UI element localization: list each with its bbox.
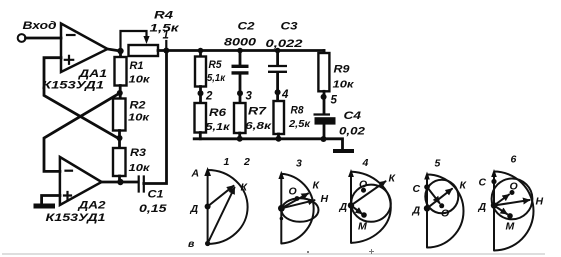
- svg-text:5,1к: 5,1к: [206, 121, 231, 133]
- svg-text:R2: R2: [130, 100, 146, 112]
- svg-text:Д: Д: [478, 201, 487, 213]
- svg-text:1: 1: [224, 156, 230, 168]
- svg-text:М: М: [358, 221, 367, 233]
- junction dot R8 bottom: [276, 136, 282, 142]
- svg-text:К153УД1: К153УД1: [46, 212, 106, 224]
- wire R8 to bottom rail: [277, 134, 280, 139]
- svg-text:R4: R4: [154, 10, 173, 22]
- svg-text:Н: Н: [321, 193, 329, 205]
- bottom rail wire: [194, 139, 342, 149]
- svg-text:С: С: [413, 183, 421, 195]
- vector diagram 4: [339, 157, 397, 243]
- svg-text:0,15: 0,15: [139, 203, 168, 215]
- op-amp DA2 К153УД1: [46, 157, 106, 224]
- resistor R2 10к: [113, 99, 150, 131]
- svg-text:5: 5: [435, 158, 441, 170]
- wire R3 to DA2 output node: [118, 176, 121, 182]
- resistor R9 10к: [318, 53, 354, 91]
- svg-text:О: О: [289, 186, 297, 198]
- op-amp DA1 К153УД1: [42, 24, 108, 92]
- wire rail to C2: [239, 51, 242, 66]
- svg-text:6: 6: [511, 154, 517, 166]
- ground at bottom rail: [333, 149, 354, 153]
- svg-text:8000: 8000: [224, 37, 257, 49]
- svg-text:10к: 10к: [129, 162, 151, 174]
- wire rail to R9: [323, 51, 326, 54]
- svg-text:2: 2: [243, 156, 250, 168]
- wire input to DA1 inverting input: [26, 37, 62, 40]
- wire DA1 noninverting input to R2-R3 junction (crossing): [44, 58, 120, 139]
- vector diagram 6: [478, 154, 544, 251]
- svg-text:6,8к: 6,8к: [245, 120, 272, 132]
- svg-text:10к: 10к: [129, 74, 151, 86]
- wire DA2 noninverting input to ground: [42, 196, 60, 204]
- junction dot R2-R3: [117, 135, 123, 141]
- svg-text:Д: Д: [412, 205, 421, 217]
- vector diagram 5: [412, 158, 468, 248]
- svg-text:2: 2: [205, 91, 213, 103]
- junction dot R5 top: [198, 48, 204, 54]
- wire R7 to bottom rail: [238, 133, 241, 139]
- vector diagram 3: [278, 158, 329, 244]
- faint scan line bottom: [2, 249, 545, 254]
- svg-text:ДА1: ДА1: [78, 68, 107, 80]
- capacitor C2 8000: [224, 21, 257, 73]
- wire R4 to node 1 and main top rail: [158, 49, 324, 52]
- ground at DA2: [34, 204, 56, 209]
- svg-text:R7: R7: [248, 106, 267, 118]
- wire rail to R5: [199, 51, 202, 57]
- resistor R1 10к: [115, 51, 151, 86]
- capacitor C4 0,02: [314, 110, 366, 138]
- svg-text:R9: R9: [334, 64, 351, 76]
- svg-text:R1: R1: [130, 60, 144, 72]
- svg-text:0,022: 0,022: [266, 38, 303, 50]
- wire C3 to R8: [276, 73, 279, 102]
- wire R1 to R2: [119, 86, 122, 99]
- svg-text:10к: 10к: [333, 79, 355, 91]
- svg-text:1: 1: [163, 30, 169, 42]
- svg-text:Д: Д: [190, 203, 199, 215]
- svg-text:К153УД1: К153УД1: [42, 80, 104, 92]
- wire R6 to bottom rail: [199, 133, 202, 139]
- junction dot DA1 output: [117, 48, 123, 54]
- svg-text:Д: Д: [339, 201, 348, 213]
- svg-text:R8: R8: [291, 105, 305, 117]
- node 2 marker: [198, 90, 214, 102]
- svg-text:ДА2: ДА2: [77, 200, 105, 212]
- node 5 marker: [321, 94, 338, 107]
- svg-text:С: С: [479, 177, 487, 189]
- resistor R6 5,1к: [195, 103, 231, 133]
- junction dot R7 bottom: [237, 136, 243, 142]
- svg-text:М: М: [506, 221, 515, 233]
- resistor R8 2,5к: [274, 101, 311, 134]
- svg-text:3: 3: [246, 91, 253, 103]
- svg-text:5,1к: 5,1к: [207, 72, 226, 84]
- vector diagram 1 (nodes 1,2): [188, 156, 250, 250]
- svg-text:5: 5: [331, 95, 338, 107]
- junction dot DA2 output: [117, 179, 123, 185]
- potentiometer R4 1,5к: [129, 10, 181, 57]
- svg-text:О: О: [441, 208, 449, 220]
- wire C4 to bottom rail: [323, 125, 326, 139]
- junction dot C3 top: [275, 48, 281, 54]
- junction dot R1-R2: [117, 90, 123, 96]
- wire DA1 output to junction: [108, 49, 121, 51]
- svg-text:3: 3: [296, 158, 302, 170]
- svg-text:С1: С1: [148, 189, 164, 201]
- resistor R7 6,8к: [234, 103, 272, 133]
- svg-text:10к: 10к: [128, 112, 150, 124]
- node 1 marker: [163, 30, 170, 54]
- svg-text:С2: С2: [238, 21, 255, 33]
- svg-text:R5: R5: [209, 59, 223, 71]
- wire R4 wiper loop: [121, 31, 150, 51]
- node 3 marker: [237, 90, 253, 102]
- capacitor C1 0,15: [139, 177, 168, 216]
- wire R5 to R6: [199, 87, 202, 104]
- resistor R5 5,1к: [195, 57, 226, 87]
- svg-text:0,02: 0,02: [339, 126, 365, 138]
- input terminal Вход: [18, 20, 57, 42]
- wire R1-R2 junction to DA2 inverting input (crossing): [44, 93, 120, 171]
- capacitor C3 0,022: [266, 21, 303, 72]
- svg-text:А: А: [191, 168, 200, 180]
- node 4 marker: [275, 89, 289, 101]
- svg-text:С3: С3: [281, 21, 298, 33]
- wire R2 to R3: [118, 131, 121, 149]
- resistor R3 10к: [113, 147, 150, 176]
- wire C2 to R7: [239, 74, 242, 103]
- svg-text:С4: С4: [344, 110, 362, 122]
- svg-text:R3: R3: [130, 147, 146, 159]
- svg-text:4: 4: [362, 157, 369, 169]
- svg-text:R6: R6: [209, 107, 227, 119]
- svg-text:Вход: Вход: [23, 20, 57, 32]
- svg-text:Н: Н: [536, 196, 544, 208]
- junction dot C4 bottom: [321, 136, 327, 142]
- svg-text:О: О: [359, 179, 367, 191]
- svg-text:2,5к: 2,5к: [288, 118, 311, 130]
- wire R9 to C4: [323, 91, 326, 114]
- svg-text:О: О: [510, 181, 518, 193]
- wire rail to C3: [276, 51, 279, 66]
- svg-text:в: в: [188, 238, 195, 250]
- wire C1 up to node 1 rail: [144, 51, 167, 184]
- junction dot C2 top: [237, 48, 243, 54]
- wire DA2 output to C1: [102, 181, 138, 184]
- svg-text:4: 4: [281, 89, 289, 101]
